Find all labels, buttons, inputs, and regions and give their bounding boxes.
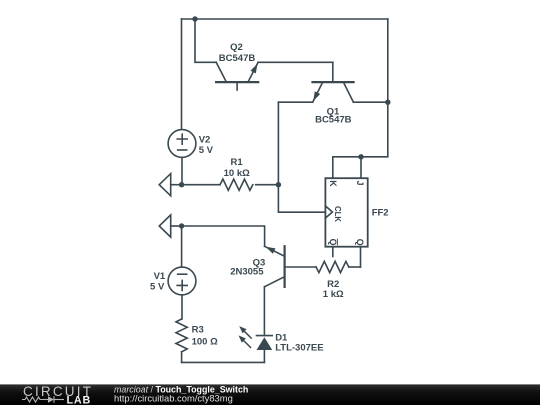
wire Q pin to R2 — [349, 266, 361, 268]
ground GND2 — [159, 215, 181, 237]
LED D1 — [239, 287, 273, 363]
resistor R2 — [316, 261, 349, 272]
svg-text:Q: Q — [328, 239, 338, 246]
footer logo resistor-diode glyph — [22, 396, 64, 403]
svg-text:5 V: 5 V — [199, 145, 214, 156]
wire Q1 collector — [353, 101, 387, 103]
wire Q1 emitter — [278, 101, 312, 103]
resistor R1 — [182, 179, 279, 190]
flip-flop pin labels (rotated) — [328, 180, 365, 246]
ground GND1 — [159, 174, 181, 196]
svg-text:BC547B: BC547B — [219, 53, 256, 64]
flip-flop FF2 — [325, 178, 367, 267]
wire right rail to J/K — [333, 19, 388, 178]
wire bottom R3 to D1 — [182, 361, 265, 363]
svg-text:CLK: CLK — [333, 206, 342, 222]
svg-text:LAB: LAB — [67, 394, 92, 405]
wire emitter drop to CLK — [278, 102, 325, 212]
transistor Q3 — [265, 246, 285, 287]
svg-text:5 V: 5 V — [150, 281, 165, 292]
svg-text:http://circuitlab.com/cty83mg: http://circuitlab.com/cty83mg — [114, 392, 233, 403]
svg-text:R1: R1 — [231, 157, 244, 168]
svg-text:100 Ω: 100 Ω — [192, 337, 218, 348]
wire Q3 emitter up-left — [182, 226, 265, 246]
transistor Q1 — [313, 62, 354, 102]
footer bar — [0, 384, 540, 405]
transistor Q2 — [216, 62, 258, 90]
wire Q2 emitter to Q1 base — [258, 61, 333, 63]
wire R2 to Q3 base — [285, 266, 316, 268]
svg-text:Q: Q — [355, 239, 365, 246]
node Q1 collector / right rail — [385, 100, 390, 105]
svg-text:J: J — [355, 181, 365, 186]
node top rail / Q2 — [192, 16, 197, 21]
svg-text:10 kΩ: 10 kΩ — [224, 168, 250, 179]
node R1 right / clk riser — [276, 182, 281, 187]
node V2 / GND1 / R1 — [179, 182, 184, 187]
svg-text:R2: R2 — [327, 279, 339, 290]
node GND2 / V1 — [179, 223, 184, 228]
resistor R3 — [176, 319, 187, 362]
wire V2 top riser — [181, 19, 183, 130]
svg-text:BC547B: BC547B — [315, 115, 352, 126]
svg-text:1 kΩ: 1 kΩ — [323, 289, 344, 300]
voltage source V1 — [168, 226, 196, 319]
wire top rail — [182, 18, 388, 20]
svg-text:LTL-307EE: LTL-307EE — [275, 342, 323, 353]
svg-text:Q2: Q2 — [230, 42, 243, 53]
svg-text:K: K — [328, 180, 338, 187]
node J/K tie — [358, 154, 363, 159]
svg-text:FF2: FF2 — [372, 208, 389, 219]
wire Q2 collector riser — [195, 19, 216, 62]
voltage source V2 — [168, 130, 196, 185]
svg-text:R3: R3 — [192, 324, 204, 335]
svg-text:2N3055: 2N3055 — [230, 267, 264, 278]
